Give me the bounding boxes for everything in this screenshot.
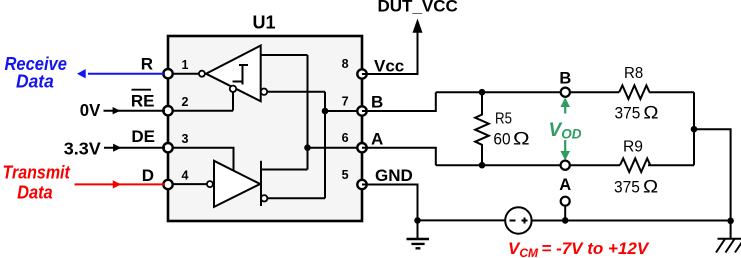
- node R5 top junction: [479, 89, 486, 96]
- pin 5 circle: [357, 180, 366, 189]
- svg-text:R5: R5: [495, 111, 512, 128]
- hysteresis symbol: [233, 65, 249, 85]
- svg-text:5: 5: [342, 168, 349, 182]
- node A terminal on rail: [561, 161, 570, 170]
- svg-text:GND: GND: [375, 166, 413, 185]
- svg-text:VCM = -7V to +12V: VCM = -7V to +12V: [508, 239, 650, 258]
- node far right junction: [727, 218, 734, 225]
- wire driver inverting output to net B: [267, 197, 325, 199]
- svg-text:R: R: [141, 55, 153, 74]
- pin 1 circle: [163, 69, 172, 78]
- svg-text:1: 1: [182, 58, 189, 72]
- node A terminal lower: [561, 197, 570, 206]
- svg-text:3.3V: 3.3V: [64, 138, 101, 158]
- node internal A junction: [304, 144, 311, 151]
- node R5 bottom junction: [479, 162, 486, 169]
- IC body U1: [168, 13, 362, 222]
- pin 7 circle: [357, 106, 366, 115]
- svg-text:DE: DE: [131, 127, 155, 146]
- svg-text:RE: RE: [131, 91, 155, 110]
- V_OD arrows and label: [564, 107, 566, 114]
- receiver enable bubble: [230, 86, 236, 92]
- node A stub junction: [562, 217, 569, 224]
- wire receiver noninverting input: [261, 54, 308, 56]
- svg-text:D: D: [142, 166, 154, 185]
- source VCM circle: [505, 207, 531, 233]
- wire A rail: [436, 164, 694, 166]
- svg-text:B: B: [559, 70, 571, 88]
- svg-text:Ω: Ω: [513, 129, 530, 149]
- svg-text:U1: U1: [252, 13, 275, 33]
- pin 3 circle: [163, 143, 172, 152]
- driver input bubble: [207, 181, 213, 187]
- svg-text:Data: Data: [17, 183, 53, 203]
- resistor R9: [620, 158, 650, 172]
- wire pin1 to receiver output: [172, 73, 199, 75]
- svg-text:3: 3: [182, 132, 189, 146]
- svg-text:A: A: [371, 130, 383, 149]
- wire receiver inverting input to net B: [267, 91, 325, 93]
- svg-text:Ω: Ω: [643, 177, 659, 197]
- wire pin6 internal: [308, 147, 359, 149]
- wire pin7 internal: [325, 110, 358, 112]
- wire blue receive arrow: [88, 73, 165, 75]
- node GND junction: [414, 217, 421, 224]
- driver buffer D: [214, 161, 260, 207]
- pin 2 circle: [163, 106, 172, 115]
- node internal B junction: [322, 108, 329, 115]
- wire pin5 GND down: [362, 185, 418, 239]
- node B terminal: [561, 88, 570, 97]
- svg-text:VOD: VOD: [549, 120, 582, 142]
- svg-text:0V: 0V: [80, 100, 101, 120]
- wire 3.3V to pin3 with arrow: [104, 147, 165, 149]
- svg-text:A: A: [559, 176, 571, 194]
- wire Vcc to DUT_VCC arrow: [362, 33, 418, 75]
- wire stub to node A: [564, 206, 566, 221]
- wire pin6 to A rail: [362, 148, 436, 166]
- svg-text:B: B: [371, 93, 383, 112]
- wire pin7 to B rail: [362, 92, 436, 111]
- svg-text:Data: Data: [16, 72, 54, 92]
- wire 0V to pin2 with arrow: [104, 110, 166, 112]
- svg-text:Ω: Ω: [643, 103, 659, 123]
- pin 6 circle: [357, 143, 366, 152]
- wire bottom rail right: [532, 220, 731, 222]
- driver output bar: [260, 161, 262, 206]
- earth ground symbol: [716, 221, 741, 253]
- svg-text:2: 2: [182, 95, 189, 109]
- svg-text:Transmit: Transmit: [3, 163, 71, 183]
- receiver output bubble: [199, 71, 205, 77]
- wire B rail: [436, 91, 694, 93]
- wire driver noninverting output: [261, 169, 308, 171]
- wire junction to far right: [694, 129, 731, 221]
- resistor R5: [475, 92, 489, 165]
- svg-text:DUT_VCC: DUT_VCC: [378, 0, 458, 15]
- wire bottom rail left: [418, 219, 506, 221]
- wire pin3 DE to driver: [172, 148, 234, 171]
- node junction right: [691, 126, 698, 133]
- wire B rail down to junction: [693, 92, 695, 165]
- svg-text:4: 4: [182, 169, 189, 183]
- wire internal net A vertical: [307, 55, 309, 170]
- wire pin2: [172, 110, 233, 112]
- pin 4 circle: [163, 180, 172, 189]
- ground symbol signal: [407, 239, 430, 248]
- svg-text:R8: R8: [624, 65, 643, 82]
- svg-text:375: 375: [615, 104, 641, 123]
- resistor R8: [619, 85, 649, 99]
- svg-text:R9: R9: [623, 139, 643, 156]
- pin 8 circle: [357, 69, 366, 78]
- svg-text:60: 60: [493, 130, 510, 149]
- receiver buffer R: [206, 46, 261, 102]
- receiver inverting input bubble: [261, 89, 267, 95]
- wire red transmit arrow: [75, 183, 166, 185]
- svg-text:Vcc: Vcc: [374, 57, 404, 76]
- wire RE enable stub: [232, 92, 234, 111]
- svg-text:7: 7: [342, 94, 349, 108]
- wire pin4 to driver input: [172, 183, 207, 185]
- wire internal net B vertical: [324, 92, 326, 199]
- driver inverting output bubble: [261, 195, 267, 201]
- svg-text:6: 6: [342, 131, 349, 145]
- svg-text:8: 8: [342, 57, 349, 71]
- svg-text:375: 375: [614, 178, 640, 197]
